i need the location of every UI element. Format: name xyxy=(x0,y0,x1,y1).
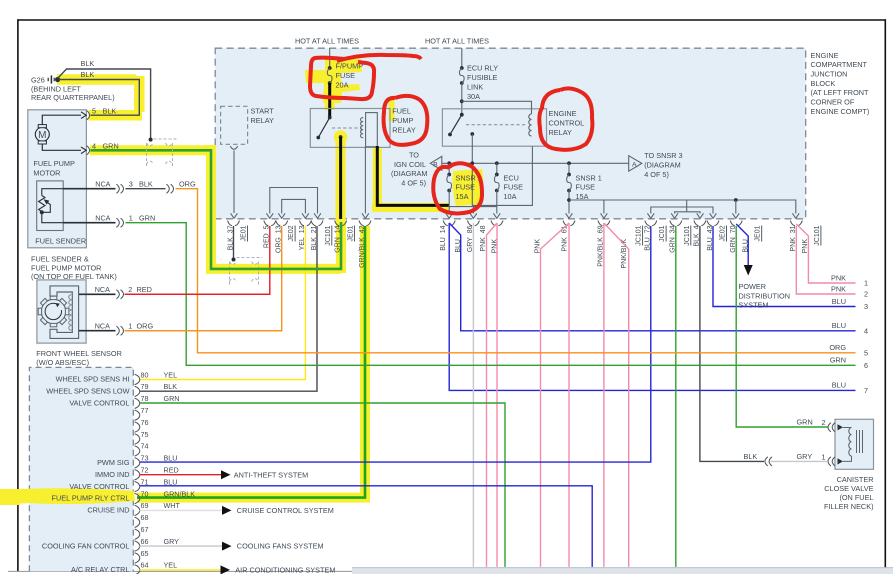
svg-text:CONTROL: CONTROL xyxy=(549,119,585,128)
svg-text:TO: TO xyxy=(409,151,419,160)
ECM pin 77 xyxy=(135,410,140,415)
svg-text:78: 78 xyxy=(141,394,149,403)
wire BLU 14 b -> BLU 4 xyxy=(449,223,855,331)
svg-text:(ON TOP OF FUEL TANK): (ON TOP OF FUEL TANK) xyxy=(31,272,117,281)
wire BLK lower from G26 to pin 5 xyxy=(59,80,139,116)
svg-text:BLU: BLU xyxy=(832,297,846,306)
svg-text:FUEL: FUEL xyxy=(392,107,411,116)
svg-text:3: 3 xyxy=(864,302,868,311)
JB pin cups xyxy=(228,221,233,226)
svg-text:ORG: ORG xyxy=(829,343,846,352)
highlighter: GRN/BLK 42 wire to ECM pin 70 xyxy=(137,226,370,498)
svg-text:MOTOR: MOTOR xyxy=(33,169,60,178)
svg-text:JE02: JE02 xyxy=(720,225,727,241)
svg-text:PWM SIG: PWM SIG xyxy=(97,458,130,467)
svg-text:JC101: JC101 xyxy=(814,225,821,245)
svg-text:NCA: NCA xyxy=(95,285,110,294)
svg-text:VALVE CONTROL: VALVE CONTROL xyxy=(69,482,129,491)
svg-text:WHT: WHT xyxy=(164,501,181,510)
highlighter: FUEL PUMP RELAY tick xyxy=(389,100,395,121)
svg-text:(ON FUEL: (ON FUEL xyxy=(839,493,873,502)
marker loop F/PUMP fuse xyxy=(310,58,374,99)
sender pin 1 stub xyxy=(63,222,115,224)
wire YEL 64 to a/c xyxy=(140,569,221,571)
svg-text:73: 73 xyxy=(141,454,149,463)
svg-text:70: 70 xyxy=(141,489,149,498)
svg-text:GRN: GRN xyxy=(164,394,180,403)
wire BLK pin3 to inline connector xyxy=(126,188,166,190)
front wheel sensor xyxy=(50,286,79,339)
wire BLU 72 to ECM pin 73 xyxy=(140,226,651,462)
svg-text:5: 5 xyxy=(92,107,96,116)
svg-text:3: 3 xyxy=(129,180,133,189)
svg-text:PNK: PNK xyxy=(831,273,846,282)
svg-text:CLOSE VALVE: CLOSE VALVE xyxy=(824,484,873,493)
svg-text:74: 74 xyxy=(141,442,149,451)
wire RED 72 to anti-theft xyxy=(140,474,222,476)
FUEL PUMP RELAY U1 xyxy=(310,109,390,148)
highlighter: F/PUMP fuse blob xyxy=(305,59,362,103)
wire BLU 43 -> BLU 3 xyxy=(713,226,856,307)
wire RED 5 to front wheel sensor pin 2 xyxy=(125,226,270,294)
to-ign-coil triangle B xyxy=(430,156,442,170)
canister close valve L1 xyxy=(849,428,852,457)
svg-text:A/C RELAY CTRL: A/C RELAY CTRL xyxy=(71,565,130,574)
svg-text:WHEEL SPD SENS HI: WHEEL SPD SENS HI xyxy=(56,375,130,384)
svg-text:1: 1 xyxy=(128,322,132,331)
svg-text:A: A xyxy=(632,161,637,168)
svg-text:CANISTER: CANISTER xyxy=(837,475,874,484)
svg-text:5: 5 xyxy=(864,348,868,357)
wire GRN 78ecm vertical (valve control) xyxy=(140,403,506,567)
svg-text:HOT AT ALL TIMES: HOT AT ALL TIMES xyxy=(295,37,359,46)
svg-text:NCA: NCA xyxy=(95,214,110,223)
svg-text:7: 7 xyxy=(864,386,868,395)
svg-text:4: 4 xyxy=(92,142,96,151)
svg-text:HOT AT ALL TIMES: HOT AT ALL TIMES xyxy=(425,37,489,46)
highlighter: SNSR 2 FUSE blob xyxy=(452,169,483,206)
svg-text:PNK/BLK: PNK/BLK xyxy=(621,239,628,269)
svg-text:BLU: BLU xyxy=(832,321,846,330)
svg-text:BLK: BLK xyxy=(164,382,178,391)
bracket group right (BLU72/GRN34/BLK4/BLU43) xyxy=(651,207,713,214)
bottom strip xyxy=(352,568,893,574)
wire ORG sensor pin1 start xyxy=(126,330,283,332)
ECM pin 80 xyxy=(135,374,140,379)
svg-text:75: 75 xyxy=(141,430,149,439)
svg-text:FUEL PUMP RLY CTRL: FUEL PUMP RLY CTRL xyxy=(52,494,130,503)
svg-text:NCA: NCA xyxy=(95,180,110,189)
wire ORG to right edge (5) xyxy=(176,189,856,353)
svg-text:72: 72 xyxy=(141,466,149,475)
svg-text:NCA: NCA xyxy=(95,322,110,331)
svg-text:2: 2 xyxy=(128,285,132,294)
fuel pump motor / fuel sender box xyxy=(28,110,87,248)
svg-text:BLU: BLU xyxy=(164,477,178,486)
svg-text:ANTI-THEFT SYSTEM: ANTI-THEFT SYSTEM xyxy=(234,470,308,479)
svg-text:JC101: JC101 xyxy=(636,225,643,245)
wire BLK 4 to canister BLK xyxy=(700,226,764,461)
ghost inline connector near BLK37 dot xyxy=(230,262,237,265)
svg-text:REAR QUARTERPANEL): REAR QUARTERPANEL) xyxy=(31,93,115,102)
svg-text:1: 1 xyxy=(864,279,868,288)
wire PNK/BLK 69 a xyxy=(603,223,605,567)
svg-text:GRY: GRY xyxy=(164,537,180,546)
svg-text:68: 68 xyxy=(141,513,149,522)
wire RED sensor pin2 start xyxy=(126,293,271,295)
svg-text:ENGINE: ENGINE xyxy=(811,51,839,60)
ECM pin 68 xyxy=(135,517,140,522)
svg-text:FUSIBLE: FUSIBLE xyxy=(467,73,498,82)
svg-text:FUSE: FUSE xyxy=(576,183,596,192)
svg-text:RELAY: RELAY xyxy=(251,116,275,125)
svg-text:RED: RED xyxy=(164,466,179,475)
svg-text:BLU 14: BLU 14 xyxy=(440,225,447,250)
wire PNK 61 a xyxy=(568,223,570,567)
SNSR 1 FUSE 15A xyxy=(568,163,570,174)
svg-text:JC01: JC01 xyxy=(659,225,666,241)
fuel sender R1 xyxy=(37,181,64,231)
svg-text:66: 66 xyxy=(141,537,149,546)
wire PNK 61 b xyxy=(541,223,570,567)
wire ORG 13 to front wheel sensor pin 1 xyxy=(125,226,282,331)
to-snsr3 triangle A xyxy=(629,156,642,172)
wire GRN 34 down xyxy=(675,226,677,567)
svg-text:BLK: BLK xyxy=(139,180,153,189)
svg-text:(W/O ABS/ESC): (W/O ABS/ESC) xyxy=(36,358,89,367)
highlighter: relay output to pin GRN 14 xyxy=(336,132,346,222)
highlighter: swipe over FUEL PUMP RLY CTRL label xyxy=(2,488,135,504)
svg-text:GRY: GRY xyxy=(797,452,813,461)
svg-text:RELAY: RELAY xyxy=(392,126,416,135)
svg-text:(DIAGRAM: (DIAGRAM xyxy=(391,169,428,178)
svg-text:20A: 20A xyxy=(336,81,349,90)
highlighter: fuse-to-relay thick feed xyxy=(325,84,335,110)
wire PNK 48 a xyxy=(496,223,498,567)
ECM pin 65 xyxy=(135,553,140,558)
svg-text:65: 65 xyxy=(141,549,149,558)
svg-text:IGN COIL: IGN COIL xyxy=(394,160,426,169)
svg-text:POWER: POWER xyxy=(739,282,767,291)
svg-text:2: 2 xyxy=(822,418,826,427)
svg-text:FUSE: FUSE xyxy=(336,71,356,80)
svg-text:BLK: BLK xyxy=(81,70,95,79)
svg-text:DISTRIBUTION: DISTRIBUTION xyxy=(739,291,790,300)
svg-text:69: 69 xyxy=(141,501,149,510)
svg-text:CRUISE IND: CRUISE IND xyxy=(87,506,129,515)
marker loop SNSR 2 FUSE xyxy=(433,163,482,213)
svg-text:FUEL PUMP: FUEL PUMP xyxy=(33,159,75,168)
ECM pin 71 xyxy=(135,481,140,486)
svg-text:ORG: ORG xyxy=(137,322,154,331)
svg-text:YEL: YEL xyxy=(164,561,178,570)
svg-text:ECU: ECU xyxy=(504,173,519,182)
wire PNK 31 b -> PNK 1 xyxy=(796,224,855,283)
ghost inline connector (fuel tank side) xyxy=(147,143,154,146)
svg-text:(AT LEFT FRONT: (AT LEFT FRONT xyxy=(811,88,870,97)
svg-text:RED: RED xyxy=(137,285,152,294)
highlighter: G26 ground path xyxy=(57,76,142,115)
svg-text:2: 2 xyxy=(864,290,868,299)
motor M fuel pump xyxy=(35,127,49,141)
svg-text:M: M xyxy=(38,130,46,141)
svg-text:JE02: JE02 xyxy=(288,225,295,241)
outer page frame xyxy=(18,19,886,21)
svg-text:FUSE: FUSE xyxy=(504,183,524,192)
svg-text:67: 67 xyxy=(141,525,149,534)
front wheel sensor box xyxy=(37,280,86,343)
svg-text:ECU RLY: ECU RLY xyxy=(467,64,498,73)
svg-text:1: 1 xyxy=(129,214,133,223)
ECU FUSE 10A xyxy=(496,163,498,174)
svg-text:4 OF 5): 4 OF 5) xyxy=(401,178,426,187)
ENGINE CONTROL RELAY U2 xyxy=(442,109,546,146)
svg-text:TO SNSR 3: TO SNSR 3 xyxy=(644,151,682,160)
svg-text:GRN: GRN xyxy=(830,356,846,365)
svg-text:64: 64 xyxy=(141,561,149,570)
START RELAY (dashed ghost) xyxy=(221,106,248,144)
wire GRN pin1 to right edge (6) xyxy=(126,223,856,366)
svg-text:JE01: JE01 xyxy=(755,225,762,241)
svg-text:PNK: PNK xyxy=(831,284,846,293)
SNSR 2 FUSE 15A xyxy=(448,163,450,174)
svg-text:JC101: JC101 xyxy=(684,225,691,245)
sender pin 3 stub xyxy=(63,188,115,190)
svg-text:1: 1 xyxy=(822,453,826,462)
wire GRY 86 down xyxy=(472,223,474,567)
svg-text:ENGINE COMPT): ENGINE COMPT) xyxy=(811,107,870,116)
svg-text:80: 80 xyxy=(141,370,149,379)
wire BLU (pin70) to power distribution xyxy=(736,224,748,267)
wire PNK 48 b xyxy=(487,223,498,567)
svg-text:WHEEL SPD SENS LOW: WHEEL SPD SENS LOW xyxy=(46,387,129,396)
wire PNK/BLK 69 b xyxy=(604,223,629,567)
engine compartment junction block xyxy=(215,48,806,219)
svg-text:YEL: YEL xyxy=(164,370,178,379)
ECM pin 74 xyxy=(135,446,140,451)
svg-text:GRN: GRN xyxy=(103,142,119,151)
svg-text:FUEL SENDER: FUEL SENDER xyxy=(35,236,86,245)
ECM pin 64 xyxy=(135,565,140,570)
F/PUMP FUSE 20A xyxy=(329,48,331,68)
svg-text:PUMP: PUMP xyxy=(392,116,413,125)
svg-text:76: 76 xyxy=(141,418,149,427)
wire BLK 21 to ECM pin 79 xyxy=(140,226,318,391)
svg-text:30A: 30A xyxy=(467,92,480,101)
svg-text:79: 79 xyxy=(141,382,149,391)
svg-text:BLK: BLK xyxy=(103,107,117,116)
svg-text:71: 71 xyxy=(141,477,149,486)
ECM connector dashed box xyxy=(29,367,133,571)
sensor pin 1 stub xyxy=(79,330,116,332)
bracket group left (RED5/ORG13/YEL13/BLK21) xyxy=(270,188,318,214)
svg-text:START: START xyxy=(251,107,275,116)
wire GRN/BLK 42 thick to ECM pin 70 xyxy=(137,226,365,498)
svg-text:COOLING FAN CONTROL: COOLING FAN CONTROL xyxy=(42,541,130,550)
svg-text:6: 6 xyxy=(864,361,868,370)
svg-text:15A: 15A xyxy=(456,192,469,201)
ECM pin 67 xyxy=(135,529,140,534)
svg-text:B: B xyxy=(433,161,438,168)
svg-text:CRUISE CONTROL SYSTEM: CRUISE CONTROL SYSTEM xyxy=(237,506,334,515)
svg-text:77: 77 xyxy=(141,406,149,415)
node: SNSR1 distribution line xyxy=(567,198,571,202)
svg-text:4: 4 xyxy=(864,327,868,336)
svg-text:RELAY: RELAY xyxy=(549,128,573,137)
svg-text:IMMO IND: IMMO IND xyxy=(95,470,129,479)
svg-text:ORG: ORG xyxy=(179,180,196,189)
svg-text:FUSE: FUSE xyxy=(456,183,476,192)
node: fuse output tie line xyxy=(449,206,497,208)
wire GRN 70 to canister pin 2 xyxy=(736,226,827,427)
wire GRY to canister pin1 xyxy=(771,460,828,462)
svg-text:VALVE CONTROL: VALVE CONTROL xyxy=(69,399,129,408)
svg-text:JC101: JC101 xyxy=(325,225,332,245)
svg-text:JE01: JE01 xyxy=(347,225,354,241)
svg-text:JE01: JE01 xyxy=(241,225,248,241)
svg-text:JUNCTION: JUNCTION xyxy=(811,70,848,79)
ECM pin 75 xyxy=(135,434,140,439)
node: B/A power line xyxy=(442,162,629,164)
ECM pin 70 xyxy=(135,493,140,498)
wire BLK upper from G26 to ghost connector xyxy=(58,69,151,139)
ECM pin 72 xyxy=(135,470,140,475)
svg-text:BLK: BLK xyxy=(81,59,95,68)
highlighter: relay coil to SNSR2 fuse xyxy=(372,148,449,208)
wire WHT 69 to cruise control xyxy=(140,509,223,511)
svg-text:GRN: GRN xyxy=(797,417,813,426)
wire YEL 13 to ECM pin 80 xyxy=(140,226,306,380)
wire GRN 14 thick (fuel pump feed) xyxy=(91,150,342,269)
svg-text:AIR CONDITIONING SYSTEM: AIR CONDITIONING SYSTEM xyxy=(235,566,335,574)
svg-text:CORNER OF: CORNER OF xyxy=(811,98,855,107)
sensor pin 2 stub xyxy=(79,293,116,295)
svg-text:BLK: BLK xyxy=(744,452,758,461)
wire BLU 14 a -> BLU 7 xyxy=(449,223,855,390)
wire GRY 66 to cooling fans xyxy=(140,545,223,547)
wire BLK 37 from start relay pin xyxy=(233,226,235,260)
svg-text:10A: 10A xyxy=(504,192,517,201)
marker loop ENGINE CONTROL RELAY xyxy=(539,88,592,149)
ECM pin 69 xyxy=(135,505,140,510)
svg-text:FILLER NECK): FILLER NECK) xyxy=(824,502,873,511)
svg-text:GRN/BLK: GRN/BLK xyxy=(164,489,196,498)
ECM pin 76 xyxy=(135,422,140,427)
canister close valve box xyxy=(835,419,874,469)
svg-text:BLOCK: BLOCK xyxy=(811,79,836,88)
svg-text:BLU: BLU xyxy=(164,454,178,463)
ECM pin 79 xyxy=(135,386,140,391)
svg-text:COMPARTMENT: COMPARTMENT xyxy=(811,60,868,69)
svg-text:G26: G26 xyxy=(31,75,45,84)
svg-text:SNSR 1: SNSR 1 xyxy=(576,173,602,182)
ECU RLY FUSIBLE LINK 30A xyxy=(461,48,463,68)
marker loop FUEL PUMP RELAY xyxy=(384,96,428,145)
svg-text:4 OF 5): 4 OF 5) xyxy=(644,170,669,179)
ECM pin 73 xyxy=(135,458,140,463)
svg-text:GRN: GRN xyxy=(139,214,155,223)
ECM pin 78 xyxy=(135,398,140,403)
ECM pin 66 xyxy=(135,541,140,546)
svg-text:BLU: BLU xyxy=(832,381,846,390)
svg-text:(DIAGRAM: (DIAGRAM xyxy=(644,161,681,170)
svg-text:COOLING FANS SYSTEM: COOLING FANS SYSTEM xyxy=(237,542,324,551)
wire PNK 31 a -> PNK 2 xyxy=(796,226,855,294)
svg-text:ENGINE: ENGINE xyxy=(549,109,577,118)
svg-text:SYSTEM: SYSTEM xyxy=(739,301,769,310)
svg-text:LINK: LINK xyxy=(467,83,483,92)
highlighter: pin4 GRN path xyxy=(90,145,341,273)
svg-text:FUEL SENDER &: FUEL SENDER & xyxy=(31,255,89,264)
wire BLU 71ecm down xyxy=(140,486,593,567)
